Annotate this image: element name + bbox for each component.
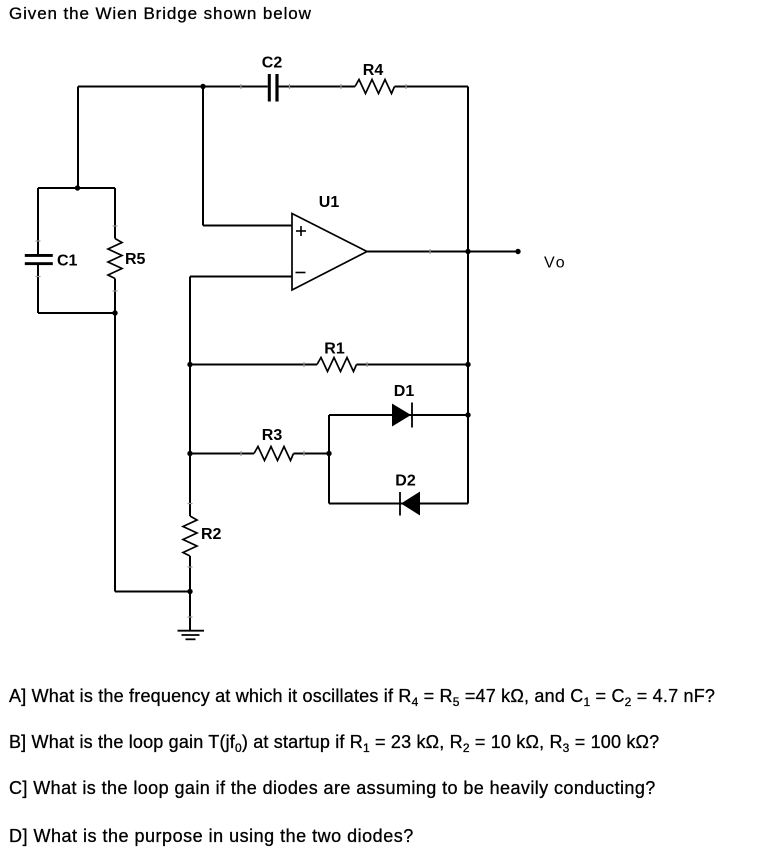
wire top rail middle	[279, 86, 355, 88]
node R3 right	[326, 451, 331, 456]
op-amp plus sign	[296, 226, 306, 236]
svg-text:C1: C1	[57, 253, 78, 270]
svg-text:R3: R3	[262, 427, 283, 444]
wire C1/R5 box top	[38, 187, 115, 189]
wire C1/R5 box bottom	[38, 312, 115, 314]
node output endpoint	[515, 249, 520, 254]
wire top rail right	[395, 86, 469, 88]
wire R3 line left	[190, 453, 254, 455]
wire to ground	[189, 592, 191, 631]
node box bottom	[112, 310, 117, 315]
node D1 right	[465, 412, 470, 417]
resistor R3	[254, 447, 294, 461]
wire top rail left	[78, 86, 268, 88]
wire minus-input vertical down to R2	[189, 277, 191, 517]
resistor R5	[108, 239, 122, 279]
node output junction	[465, 249, 470, 254]
wire bottom horizontal to R2 foot	[115, 591, 190, 593]
node R2 foot	[187, 589, 192, 594]
svg-text:R5: R5	[125, 251, 146, 268]
node R1 right	[465, 362, 470, 367]
node top rail / plus-input	[200, 84, 205, 89]
node R3 left	[187, 451, 192, 456]
wire R5 branch lower	[114, 279, 116, 314]
capacitor C1 plates	[25, 254, 53, 265]
wire R1 line right	[357, 364, 469, 366]
wire D2 line	[329, 503, 468, 505]
svg-text:R1: R1	[324, 341, 345, 358]
op-amp U1 triangle	[292, 214, 367, 291]
wire minus-input horizontal	[190, 276, 292, 278]
wire plus-input vertical	[202, 87, 204, 226]
wire middle vertical between diodes	[328, 415, 330, 504]
wire right vertical rail	[467, 87, 469, 504]
wire R1 line left	[190, 364, 317, 366]
svg-text:R4: R4	[363, 62, 384, 79]
svg-text:D2: D2	[395, 473, 416, 490]
svg-text:C2: C2	[262, 55, 283, 72]
resistor R2	[183, 516, 197, 556]
wire C1 branch lower	[37, 265, 39, 314]
question D	[9, 826, 414, 847]
wire left drop from top rail	[77, 87, 79, 189]
wire output	[367, 251, 518, 253]
node R1 left	[187, 362, 192, 367]
diode D1	[392, 403, 412, 428]
resistor R4	[355, 80, 395, 94]
svg-text:R2: R2	[201, 526, 222, 543]
wire R3 line right	[294, 453, 330, 455]
ground symbol	[178, 631, 205, 640]
wire C1 branch upper	[37, 188, 39, 255]
node box top	[75, 185, 80, 190]
op-amp minus sign	[296, 272, 306, 274]
wire R5 branch upper	[114, 188, 116, 239]
wire left long drop	[114, 313, 116, 592]
wire D1 line	[329, 414, 468, 416]
question C	[9, 778, 656, 799]
junction node dots	[75, 84, 521, 594]
diode D2	[400, 492, 420, 516]
resistor R1	[317, 358, 357, 372]
title text	[9, 4, 312, 24]
wire R2 bottom	[189, 556, 191, 592]
question B	[9, 732, 659, 753]
svg-text:Vo: Vo	[544, 255, 567, 272]
pin tick marks (light gray)	[36, 84, 431, 617]
question A	[9, 686, 715, 707]
wire plus-input horizontal	[203, 225, 292, 227]
svg-text:U1: U1	[319, 194, 340, 211]
svg-text:D1: D1	[394, 383, 415, 400]
capacitor C2 plates	[268, 74, 279, 102]
